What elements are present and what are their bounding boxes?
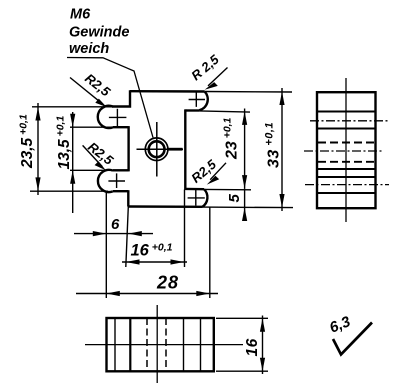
front view top edge: [130, 90, 205, 93]
svg-text:28: 28: [156, 273, 179, 293]
leader M6 to hole: [67, 58, 153, 138]
side view hole axis y151: [304, 150, 383, 152]
right notch top edge: [185, 109, 199, 111]
leader R2,5 upper-right: [205, 68, 228, 90]
radius label R2,5 upper-left: [82, 71, 113, 100]
bottom view edge line x115: [114, 318, 116, 371]
bottom view step edge x130.3: [129, 318, 131, 371]
bottom-left step vertical: [127, 190, 129, 206]
svg-text:M6: M6: [70, 7, 91, 23]
hole centerline vertical: [156, 122, 158, 177]
side view vertical centerline: [345, 78, 347, 222]
dimension 23 +0,1: [242, 109, 247, 189]
fillet arc R2,5 upper-left: [98, 106, 113, 128]
extension line 33 bottom: [203, 206, 294, 209]
extension line below part right x208.8: [209, 208, 211, 299]
left notch bottom edge: [113, 169, 129, 171]
dimension 6: [74, 231, 153, 236]
note M6 Gewinde weich: [69, 7, 129, 58]
radius label R2,5 mid-left: [85, 139, 116, 168]
leader R2,5 upper-left: [70, 78, 107, 108]
dimension 13,5 +0,1: [70, 112, 75, 213]
extension line 23,5 top: [32, 106, 112, 108]
extension line 16 top: [216, 317, 268, 319]
svg-text:5: 5: [226, 194, 243, 203]
fillet arc R2,5 upper-right: [199, 92, 208, 111]
side view groove axis y120.8: [310, 120, 388, 122]
dimension 16 bottom view: [260, 316, 265, 375]
extension line 33 top: [205, 91, 292, 94]
svg-text:Gewinde: Gewinde: [69, 25, 129, 41]
bottom-left strip edge: [113, 190, 129, 192]
bottom view edge line x200.5: [200, 318, 202, 371]
bottom view vertical centerline: [156, 305, 158, 383]
hole centerline horizontal: [137, 148, 184, 150]
svg-text:6: 6: [111, 216, 120, 233]
fillet arc R2,5 lower-right: [202, 189, 207, 207]
side view edge line y169: [317, 168, 376, 170]
dimension 23,5 +0,1: [35, 103, 40, 195]
fillet center cross lower-right: [188, 190, 205, 206]
extension line 13,5 top: [70, 126, 113, 128]
bottom view hole hidden line x147: [146, 318, 148, 371]
right notch bottom edge: [185, 188, 204, 191]
extension line 13,5 bottom: [70, 169, 113, 171]
bottom view horizontal centerline: [85, 344, 243, 346]
dimension 33 +0,1: [279, 88, 284, 211]
radius label R2,5 upper-right: [188, 51, 222, 83]
leader R2,5 mid-right: [207, 163, 226, 185]
fillet center cross upper-left: [109, 109, 127, 127]
fillet center cross lower-left: [108, 173, 125, 188]
dimension 5: [242, 189, 247, 221]
fillet arc R2,5 lower-left: [98, 170, 113, 192]
side view hidden line y142.5: [318, 142, 375, 144]
surface finish symbol 6,3: [333, 323, 372, 355]
M6 thread circle: [145, 138, 168, 161]
side view edge line y128.5: [317, 128, 376, 130]
side view edge line y193: [317, 192, 376, 194]
side view outline: [317, 92, 376, 208]
extension line 23 bottom / 5 top: [204, 188, 251, 190]
front view bottom edge: [128, 205, 202, 208]
M6 hole core circle: [149, 141, 165, 157]
dimension 28: [76, 291, 218, 296]
front view top-left step: [112, 90, 130, 106]
bottom view edge line x183.5: [183, 318, 185, 371]
extension line below part x128: [126, 207, 129, 268]
left notch top edge: [113, 126, 129, 128]
extension line 23 top: [199, 111, 250, 112]
svg-text:16: 16: [244, 338, 261, 356]
fillet center cross upper-right: [189, 92, 205, 107]
extension line below part left x106: [105, 192, 107, 299]
side view edge line y111.5: [317, 111, 376, 113]
extension line below part x184.5: [184, 190, 186, 268]
side view hidden line y161.8: [318, 161, 375, 163]
right notch floor: [184, 109, 186, 189]
extension line 23,5 bottom: [30, 190, 108, 192]
radius label R2,5 mid-right: [188, 156, 219, 186]
side view edge line y177: [317, 176, 376, 178]
bottom view hole hidden line x166: [165, 318, 167, 371]
bottom view outline: [107, 318, 214, 371]
extension line 16 bottom: [216, 370, 268, 372]
dimension 16 +0,1: [122, 259, 187, 264]
side view groove axis y184.6: [305, 184, 389, 186]
leader R2,5 mid-left: [83, 145, 106, 170]
svg-text:weich: weich: [69, 41, 109, 57]
left notch floor: [127, 126, 129, 171]
